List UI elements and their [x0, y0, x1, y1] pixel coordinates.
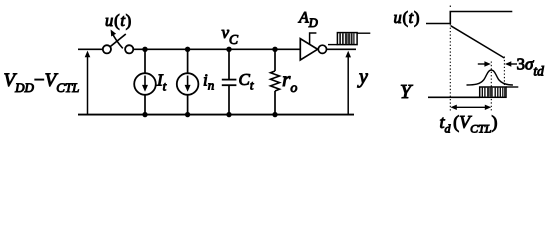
Y high line [506, 86, 518, 88]
node dot bottom 4 [272, 112, 277, 117]
Y transition hatched box [480, 87, 506, 97]
dotted line at +3 sigma [503, 57, 505, 98]
output bitstream icon low line [328, 44, 337, 46]
edge symbol on AD [310, 33, 317, 45]
td measurement arrow [450, 105, 491, 110]
node dot bottom 3 [226, 112, 231, 117]
voltage arrow VDD-VCTL [85, 51, 91, 114]
node dot top 1 [142, 47, 147, 52]
dotted line at step (td start) [449, 6, 451, 111]
capacitor Ct [222, 49, 237, 114]
output bitstream icon hatched box [337, 33, 357, 45]
label AD [298, 9, 318, 30]
node dot top 2 [185, 47, 190, 52]
label It [156, 70, 167, 93]
label ro [282, 67, 297, 96]
svg-text:in: in [203, 71, 214, 93]
op-amp AD triangle [300, 39, 317, 60]
switch S1 right contact [125, 45, 133, 53]
wire top rail from switch to comparator [133, 48, 300, 50]
label 3 sigma td [517, 55, 545, 79]
svg-text:td(VCTL): td(VCTL) [440, 112, 498, 136]
svg-text:It: It [156, 70, 167, 93]
output bitstream icon high line [357, 32, 370, 34]
Y low line [428, 96, 480, 98]
wire output of AD [326, 48, 356, 50]
vC ramp [451, 26, 505, 58]
label Y [400, 81, 413, 103]
current source It [134, 49, 156, 114]
svg-text:Ct: Ct [239, 70, 254, 93]
node dot top 3 (node vC) [226, 47, 231, 52]
label Ct [239, 70, 254, 93]
label in [203, 71, 214, 93]
3 sigma arrow right (pointing left) [505, 61, 517, 66]
svg-text:u(t): u(t) [105, 11, 132, 30]
label u(t) [105, 11, 132, 30]
svg-text:y: y [357, 66, 368, 88]
label y [357, 66, 368, 88]
dotted line at gaussian mean [490, 62, 492, 111]
output arrow y [345, 51, 351, 115]
resistor ro [271, 49, 280, 114]
node dot bottom 1 [142, 112, 147, 117]
node dot bottom 2 [185, 112, 190, 117]
svg-text:u(t): u(t) [394, 8, 421, 27]
label td(VCTL) [440, 112, 498, 136]
svg-text:ro: ro [282, 67, 297, 96]
switch control arrow u(t) [111, 30, 123, 49]
label u(t) timing [394, 8, 421, 27]
label vC [222, 23, 240, 47]
wire top rail left segment [78, 48, 103, 50]
label VDD-VCTL [4, 70, 80, 95]
u(t) step waveform [426, 12, 512, 24]
wire bottom rail [78, 114, 354, 116]
svg-text:Y: Y [400, 81, 413, 103]
svg-text:vC: vC [222, 23, 240, 47]
svg-text:AD: AD [298, 9, 318, 30]
svg-text:VDD−VCTL: VDD−VCTL [4, 70, 80, 95]
switch S1 lever [110, 34, 126, 47]
svg-text:3σtd: 3σtd [517, 55, 545, 79]
node dot top 4 [272, 47, 277, 52]
switch S1 left contact [103, 45, 111, 53]
inverter bubble [318, 45, 326, 53]
gaussian distribution curve [467, 70, 513, 85]
3 sigma arrow left (pointing right) [478, 61, 491, 66]
current source in [177, 49, 199, 114]
